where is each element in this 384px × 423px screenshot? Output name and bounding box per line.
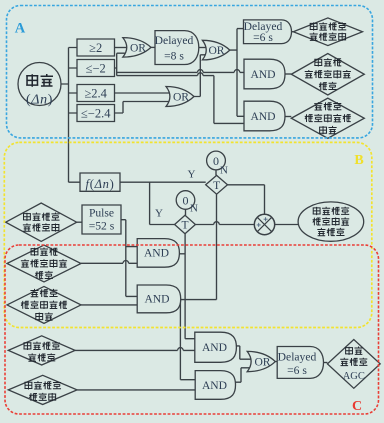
wire: f(dn) output to both selectors — [120, 182, 206, 224]
block Delayed =8s — [155, 31, 199, 65]
svg-text:AND: AND — [144, 293, 169, 306]
svg-text:N: N — [190, 203, 198, 215]
diamond: storage primary-freq action — [293, 18, 362, 46]
diamond: primary action need decrease load — [291, 98, 364, 138]
label: pin-cha — [26, 74, 38, 86]
svg-text:T: T — [213, 180, 220, 192]
svg-text:=52 s: =52 s — [89, 220, 115, 233]
wire: storage-acted diamond to Pulse — [77, 221, 82, 223]
node: frequency difference circle — [18, 63, 61, 106]
wire: Delayed6c to AGC diamond — [324, 362, 328, 364]
wire: OR3 up to OR2 input2 — [194, 55, 208, 97]
wire: lower selector out to multiplier left — [195, 222, 254, 225]
multiplier circle with X — [254, 214, 274, 234]
svg-text:Y: Y — [188, 169, 196, 181]
wire: OR1 to Delayed8 — [151, 46, 155, 48]
svg-text:=6 s: =6 s — [287, 364, 307, 377]
comparator <=-2.4 — [77, 105, 115, 122]
wire: AND4 output horizontal — [179, 299, 217, 301]
selector T (lower) — [175, 215, 196, 233]
svg-text:≥2.4: ≥2.4 — [84, 87, 107, 101]
wire: need-decrease diamond to AND4 — [81, 304, 137, 306]
wire: multiplier to output ellipse — [275, 224, 298, 226]
wire: Delayed8 to OR2 input1 — [199, 47, 208, 49]
diamond: unit is increasing load — [8, 375, 77, 404]
wire: OR2 output branch vertical — [230, 29, 244, 117]
gate OR4 — [247, 351, 275, 371]
wire: need-increase diamond to AND3 — [81, 260, 137, 263]
diamond: unlock coordinated AGC — [327, 340, 380, 389]
svg-text:N: N — [220, 165, 228, 177]
svg-text:AND: AND — [202, 341, 227, 354]
svg-text:OR: OR — [130, 42, 146, 55]
const zero circle (lower) — [176, 191, 195, 210]
wire: Delayed6 to storage-action diamond — [292, 31, 294, 33]
svg-text:AND: AND — [144, 247, 169, 260]
diamond: storage primary-freq acted — [6, 203, 77, 241]
wire: unit-decreasing diamond to AND5 — [75, 348, 195, 351]
gate AND5 — [195, 332, 237, 362]
gate AND3 — [137, 239, 179, 268]
svg-text:≤−2: ≤−2 — [86, 62, 106, 76]
comparator <=-2 — [77, 60, 115, 77]
ellipse: primary-freq needs storage action load — [298, 202, 364, 241]
svg-text:0: 0 — [183, 193, 189, 207]
wire: freq-difference bus to comparators and f(dn) — [61, 48, 80, 183]
wire: const0 to lower selector — [185, 209, 187, 215]
diamond: primary action need increase load (B) — [7, 245, 81, 282]
gate AND6 — [195, 371, 235, 400]
svg-text:Y: Y — [155, 208, 163, 220]
wire: upper selector out to multiplier top — [228, 185, 265, 215]
comparator >=2 — [77, 39, 115, 56]
svg-text:≥2: ≥2 — [89, 41, 102, 55]
svg-text:=8 s: =8 s — [164, 50, 184, 63]
diamond: primary action need increase load — [291, 54, 364, 96]
wire: Pulse to AND3/AND4 — [121, 220, 137, 297]
gate AND1 — [244, 59, 285, 89]
svg-text:Pulse: Pulse — [89, 207, 114, 220]
wire: <=-2.4 elbow to OR3 — [115, 102, 171, 114]
block Delayed =6s (top) — [244, 20, 292, 44]
wire: unit-increasing diamond to AND6 — [77, 389, 195, 391]
svg-text:0: 0 — [213, 154, 219, 168]
svg-text:f(Δn): f(Δn) — [86, 177, 115, 191]
gate AND4 — [137, 285, 181, 313]
wire: const0 to upper selector — [215, 170, 217, 176]
svg-text:Delayed: Delayed — [155, 34, 194, 47]
gate OR3 — [166, 87, 194, 107]
gate OR1 — [123, 38, 151, 58]
wire: AND6 to OR4 — [236, 368, 253, 382]
svg-text:Delayed: Delayed — [278, 351, 317, 364]
svg-text:AND: AND — [250, 110, 275, 123]
svg-text:AND: AND — [202, 379, 227, 392]
diamond: primary action need decrease load (B) — [7, 286, 81, 323]
wire: AND2 to need-decrease diamond — [285, 116, 291, 118]
svg-text:≤−2.4: ≤−2.4 — [81, 107, 111, 121]
svg-text:=6 s: =6 s — [253, 31, 273, 44]
wire: AND4 branch down to AND6 — [180, 300, 195, 380]
block Pulse =52s — [82, 205, 121, 234]
wire: lower selector control / to AND5 — [185, 234, 195, 339]
comparator >=2.4 — [77, 85, 115, 102]
block Delayed =6s (bottom) — [277, 347, 323, 379]
wire: AND5 to OR4 — [236, 346, 252, 359]
wire: <=-2 branch down to AND2 — [117, 73, 244, 124]
svg-text:AGC: AGC — [343, 371, 365, 382]
svg-text:OR: OR — [254, 356, 270, 369]
gate OR2 — [202, 40, 229, 60]
svg-text:AND: AND — [250, 68, 275, 81]
wire: AND3 output joins vertical — [179, 253, 185, 255]
wire: OR4 to Delayed6c — [275, 361, 277, 363]
wire: >=2.4 to OR3 — [115, 92, 172, 94]
wire: <=-2 elbow up to OR1 — [115, 53, 128, 75]
diamond: unit is decreasing load — [8, 336, 75, 365]
svg-text:B: B — [354, 153, 363, 168]
svg-text:OR: OR — [173, 91, 189, 104]
region A border (blue dashed) — [7, 6, 373, 138]
region B border (yellow dashed) — [4, 142, 372, 327]
region C border (red dashed) — [5, 245, 379, 414]
block f(dn) — [80, 173, 120, 191]
wire: upper selector control from AND4 — [216, 194, 218, 299]
plus marks at multiplier inputs — [257, 217, 268, 227]
wire: <=-2 long line to AND1 (hops) — [117, 70, 244, 73]
svg-text:C: C — [352, 399, 362, 414]
const zero circle (upper) — [207, 151, 226, 170]
wire: >=2 to OR1 — [115, 47, 128, 49]
gate AND2 — [244, 101, 285, 131]
svg-text:A: A — [15, 21, 26, 37]
selector T (upper) — [206, 175, 228, 194]
svg-text:OR: OR — [208, 44, 224, 57]
svg-text:T: T — [181, 220, 188, 232]
wire: AND1 to need-increase diamond — [285, 73, 291, 75]
svg-text:(Δn): (Δn) — [26, 93, 53, 108]
